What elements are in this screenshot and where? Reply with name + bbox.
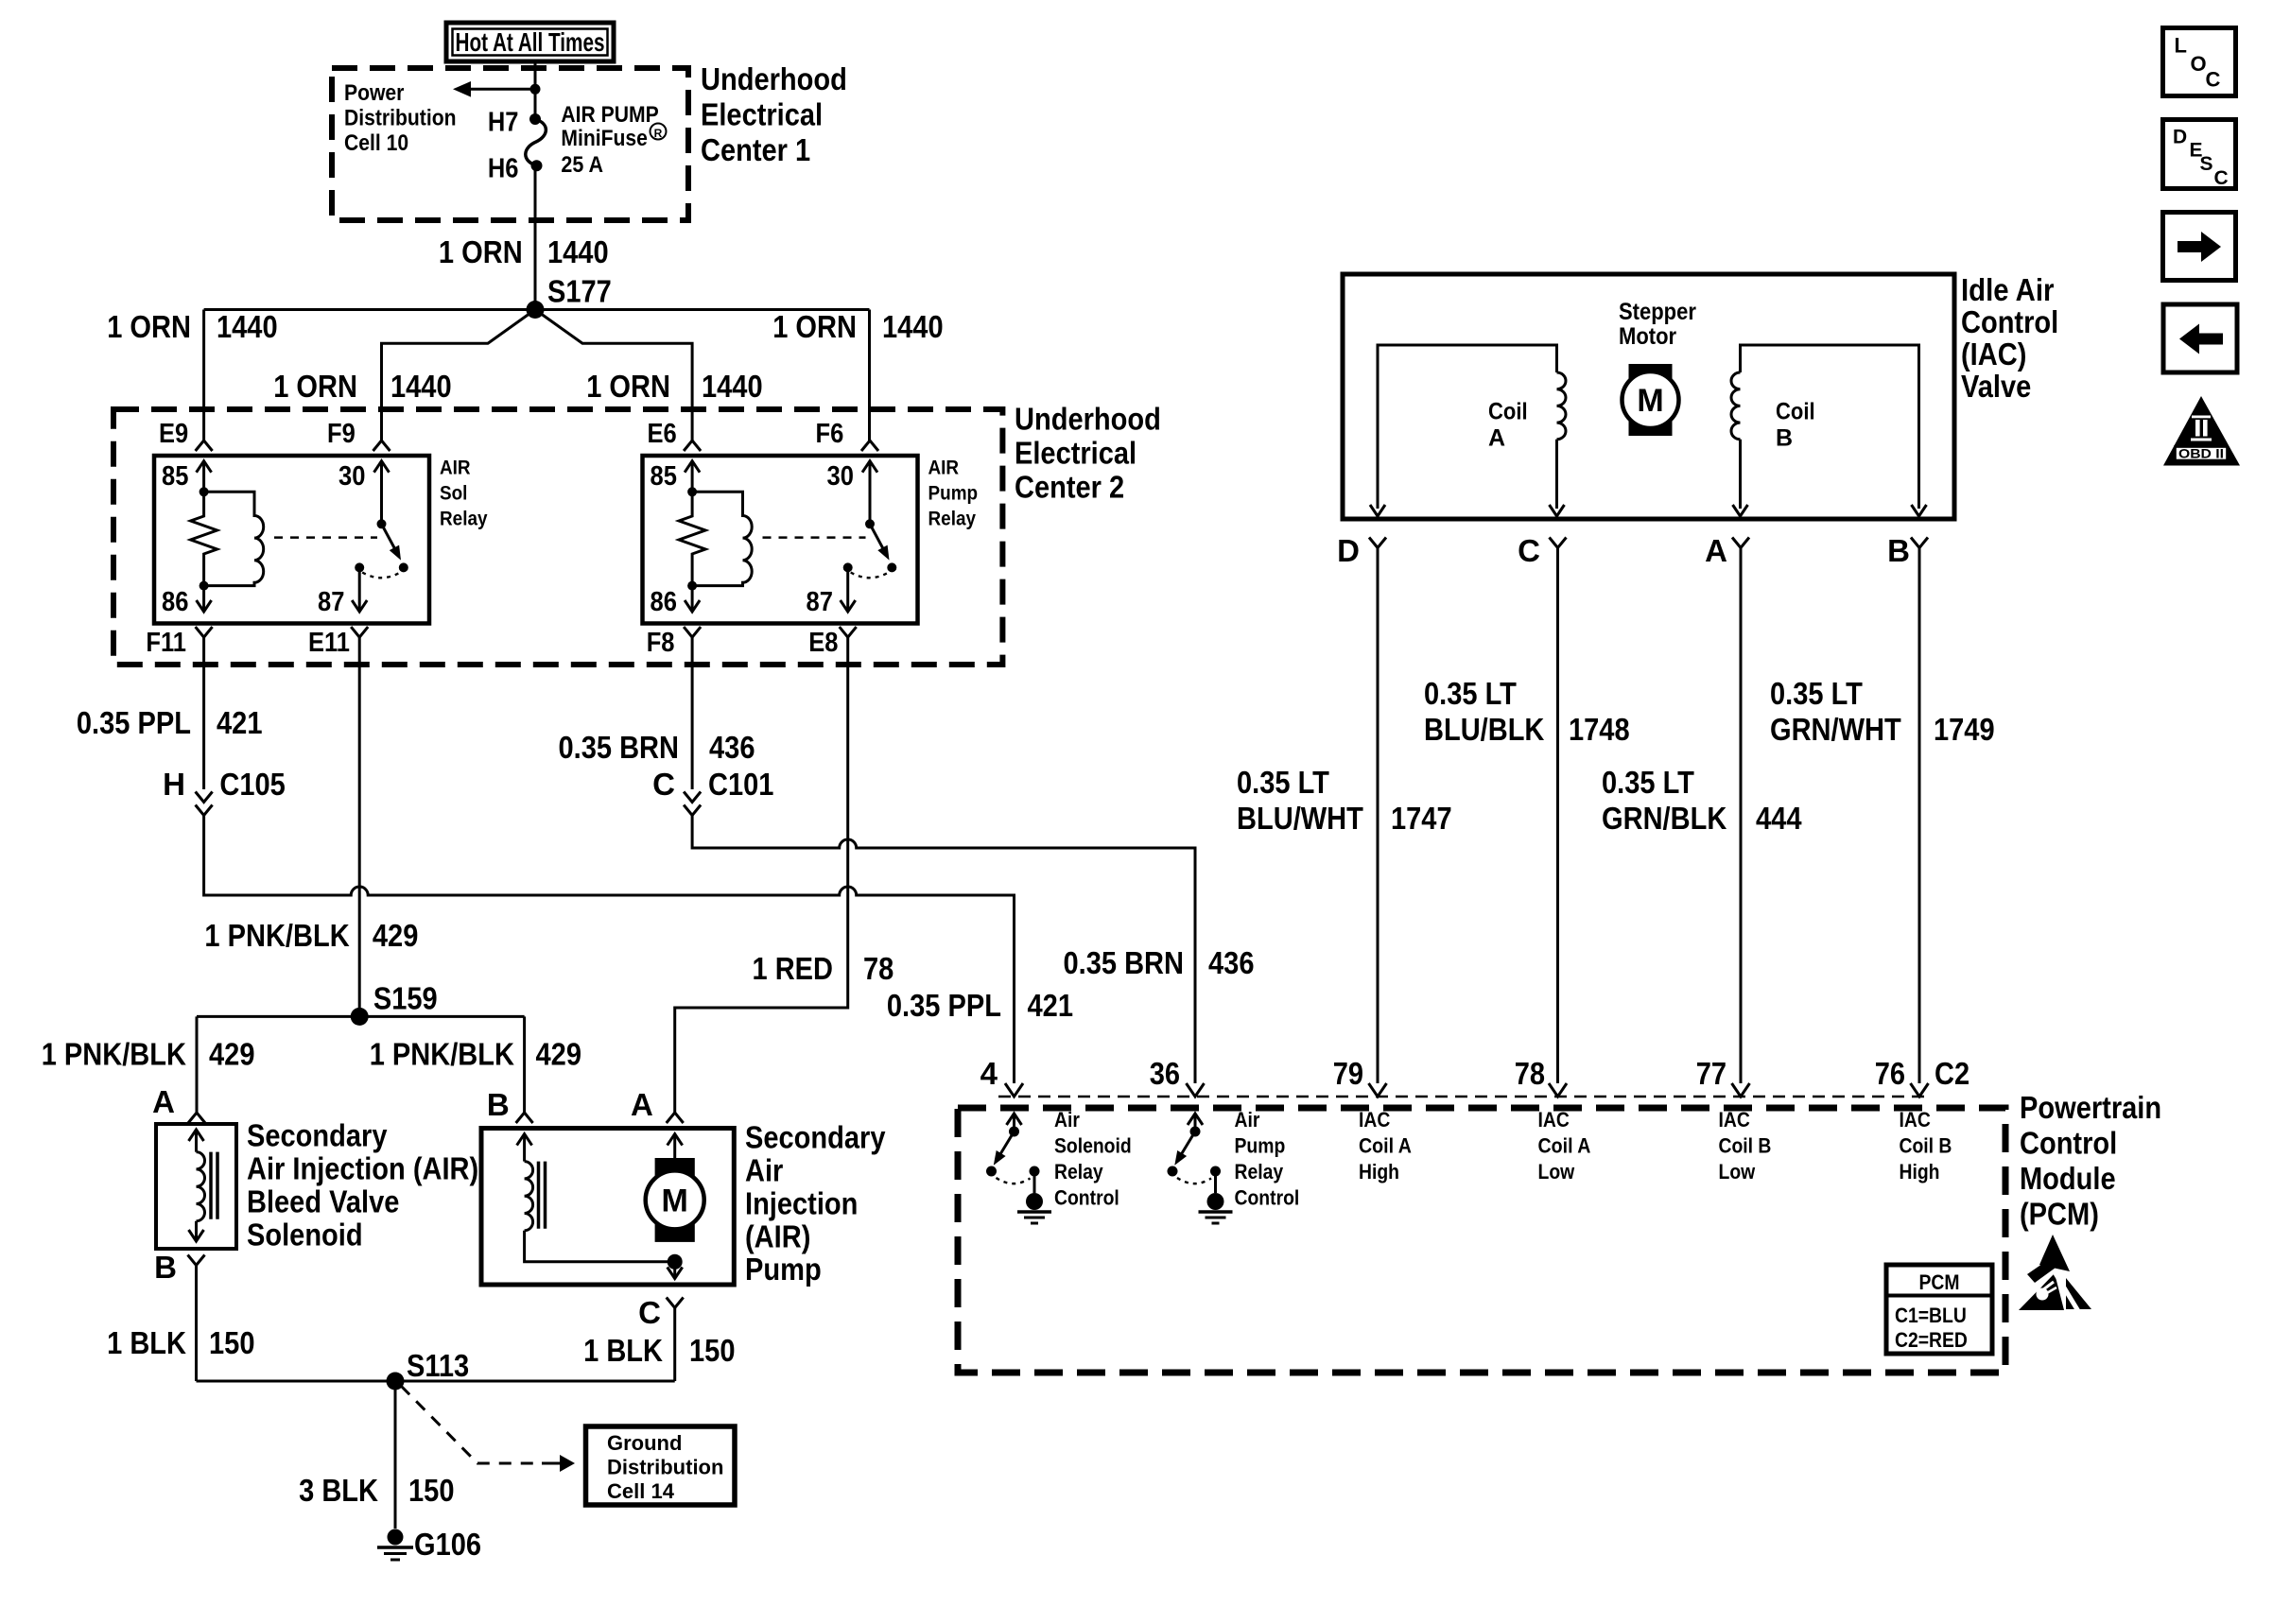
svg-text:1 PNK/BLK: 1 PNK/BLK xyxy=(204,918,349,953)
svg-text:Cell 14: Cell 14 xyxy=(607,1479,675,1503)
svg-text:0.35 LT: 0.35 LT xyxy=(1237,765,1329,800)
wire from Hot At All Times into UEC1 xyxy=(534,60,537,119)
relay switch pin 30 xyxy=(862,461,877,473)
svg-text:86: 86 xyxy=(651,587,677,617)
svg-text:GRN/WHT: GRN/WHT xyxy=(1770,712,1901,747)
svg-text:AIR: AIR xyxy=(440,457,471,479)
svg-text:C: C xyxy=(2206,68,2221,92)
svg-text:Ground: Ground xyxy=(607,1431,682,1455)
svg-text:421: 421 xyxy=(1028,988,1074,1023)
svg-text:Secondary: Secondary xyxy=(745,1120,886,1155)
svg-text:Coil: Coil xyxy=(1776,399,1815,425)
svg-text:Solenoid: Solenoid xyxy=(247,1217,363,1252)
svg-text:AIR: AIR xyxy=(928,457,960,479)
ground (internal) xyxy=(1207,1193,1224,1210)
dashed actuator link xyxy=(274,536,377,539)
svg-text:Power: Power xyxy=(344,80,404,106)
svg-text:Pump: Pump xyxy=(745,1252,822,1287)
svg-text:1 ORN: 1 ORN xyxy=(107,309,191,344)
svg-text:444: 444 xyxy=(1756,801,1802,836)
svg-text:1440: 1440 xyxy=(547,234,609,269)
svg-text:0.35 PPL: 0.35 PPL xyxy=(887,988,1001,1023)
svg-text:Coil A: Coil A xyxy=(1538,1134,1591,1158)
splice S113 xyxy=(197,1380,675,1383)
svg-text:A: A xyxy=(152,1084,175,1119)
svg-text:E11: E11 xyxy=(308,628,350,658)
svg-text:Control: Control xyxy=(1961,304,2058,339)
PCM connector row (dashed in-line connector C2) xyxy=(998,1096,1931,1098)
node pin C of AIR pump xyxy=(667,1298,684,1308)
svg-text:F9: F9 xyxy=(327,419,356,449)
svg-text:1 PNK/BLK: 1 PNK/BLK xyxy=(370,1037,514,1072)
svg-text:C: C xyxy=(652,767,675,802)
svg-text:Solenoid: Solenoid xyxy=(1054,1134,1132,1158)
svg-text:F8: F8 xyxy=(647,628,675,658)
svg-text:Air: Air xyxy=(745,1153,783,1188)
wire 1 RED 78 from E8 to AIR pump pin A xyxy=(675,637,848,1113)
svg-text:Distribution: Distribution xyxy=(607,1456,723,1479)
node pin C of IAC xyxy=(1550,538,1567,548)
motor M stepper motor symbol xyxy=(1629,364,1673,383)
svg-text:30: 30 xyxy=(827,461,854,492)
svg-text:30: 30 xyxy=(338,461,365,492)
node PCM pin 78 xyxy=(1549,1083,1567,1097)
svg-text:IAC: IAC xyxy=(1719,1108,1750,1132)
IAC valve box xyxy=(1343,274,1954,519)
svg-text:4: 4 xyxy=(980,1056,998,1091)
icon OBD II triangle xyxy=(2163,396,2240,466)
wire arrow to Power Distribution Cell 10 xyxy=(460,88,535,91)
wire 0.35 BRN 436 from C101 to PCM pin 36 xyxy=(692,816,1195,1084)
svg-text:1440: 1440 xyxy=(217,309,278,344)
svg-text:C105: C105 xyxy=(219,767,285,802)
svg-text:Air: Air xyxy=(1054,1108,1080,1132)
resistor (relay suppression) xyxy=(191,492,217,585)
svg-text:L: L xyxy=(2175,34,2187,58)
svg-text:D: D xyxy=(2173,127,2187,148)
svg-text:1440: 1440 xyxy=(390,369,452,404)
svg-text:78: 78 xyxy=(1515,1056,1545,1091)
wire 0.35 LT GRN/BLK 444 from IAC A to PCM 77 xyxy=(1740,548,1743,1084)
wire 0.35 PPL 421 from F11 to C105 xyxy=(202,637,205,789)
wire 0.35 PPL 421 from C105 to PCM pin 4 xyxy=(204,816,1015,1084)
svg-text:GRN/BLK: GRN/BLK xyxy=(1602,801,1726,836)
svg-text:1748: 1748 xyxy=(1569,712,1630,747)
node PCM connector legend box xyxy=(1886,1265,1992,1354)
svg-text:Motor: Motor xyxy=(1619,323,1676,350)
svg-text:S177: S177 xyxy=(547,274,612,309)
svg-text:36: 36 xyxy=(1150,1056,1180,1091)
svg-text:E9: E9 xyxy=(159,419,188,449)
motor M symbol xyxy=(655,1158,695,1176)
svg-text:1749: 1749 xyxy=(1934,712,1995,747)
svg-text:Underhood: Underhood xyxy=(701,61,847,96)
svg-text:PCM: PCM xyxy=(1919,1270,1960,1294)
svg-text:436: 436 xyxy=(709,730,755,765)
relay switch contact 87 xyxy=(355,562,364,572)
svg-text:Module: Module xyxy=(2020,1161,2116,1196)
svg-text:Pump: Pump xyxy=(1235,1134,1286,1158)
node terminal F6 xyxy=(861,441,878,451)
wire 1 ORN 1440 branch to F9 xyxy=(382,310,536,441)
wire 1 ORN 1440 from fuse to S177 xyxy=(534,165,537,309)
svg-text:Coil B: Coil B xyxy=(1719,1134,1772,1158)
svg-text:High: High xyxy=(1359,1160,1399,1183)
svg-text:C: C xyxy=(1518,533,1540,568)
ESD sensitivity symbol xyxy=(2039,1235,2070,1271)
relay switch contact 87 xyxy=(843,562,853,572)
icon LOC box xyxy=(2163,28,2236,96)
svg-text:1 ORN: 1 ORN xyxy=(772,309,857,344)
svg-text:0.35 BRN: 0.35 BRN xyxy=(559,730,680,765)
svg-text:87: 87 xyxy=(807,587,833,617)
svg-text:76: 76 xyxy=(1875,1056,1905,1091)
svg-text:C1=BLU: C1=BLU xyxy=(1895,1304,1967,1327)
svg-text:IAC: IAC xyxy=(1538,1108,1570,1132)
svg-text:H6: H6 xyxy=(488,154,519,184)
icon right arrow box xyxy=(2163,213,2236,281)
svg-text:Center 2: Center 2 xyxy=(1015,470,1124,505)
svg-text:429: 429 xyxy=(373,918,419,953)
relay coil pin 85 xyxy=(197,461,212,473)
svg-text:S159: S159 xyxy=(373,980,438,1015)
svg-text:Air Injection (AIR): Air Injection (AIR) xyxy=(247,1151,478,1186)
relay switch arm xyxy=(870,524,886,554)
wire 0.35 LT BLU/WHT 1747 from IAC D to PCM 79 xyxy=(1377,548,1379,1084)
svg-text:A: A xyxy=(631,1087,653,1122)
svg-text:H: H xyxy=(163,767,185,802)
svg-text:Distribution: Distribution xyxy=(344,106,457,131)
svg-text:F11: F11 xyxy=(146,628,186,658)
wire 1 BLK 150 from solenoid B to S113 xyxy=(195,1266,198,1382)
svg-text:H7: H7 xyxy=(488,107,519,137)
relay AIR Pump Relay box xyxy=(643,456,918,624)
svg-text:(PCM): (PCM) xyxy=(2020,1197,2099,1232)
relay switch arm xyxy=(382,524,398,554)
node pin D of IAC xyxy=(1369,538,1386,548)
svg-text:C: C xyxy=(2214,167,2229,189)
svg-text:Idle Air: Idle Air xyxy=(1961,272,2055,307)
svg-text:87: 87 xyxy=(318,587,344,617)
svg-text:Secondary: Secondary xyxy=(247,1118,388,1153)
svg-text:Control: Control xyxy=(1054,1186,1119,1210)
Underhood Electrical Center 2 dashed box xyxy=(113,409,1002,665)
dashed actuator link xyxy=(763,536,866,539)
svg-text:Low: Low xyxy=(1538,1160,1575,1183)
svg-text:Air: Air xyxy=(1235,1108,1260,1132)
svg-text:Electrical: Electrical xyxy=(1015,436,1136,471)
wire dashed reference to Ground Distribution Cell 14 xyxy=(401,1386,542,1463)
relay coil winding xyxy=(692,492,752,585)
svg-text:Relay: Relay xyxy=(1235,1160,1284,1183)
fuse AIR PUMP MiniFuse 25 A xyxy=(529,113,541,125)
node PCM pin 36 xyxy=(1187,1083,1205,1097)
svg-text:M: M xyxy=(1637,383,1663,419)
svg-text:E8: E8 xyxy=(808,628,838,658)
relay pin 86 xyxy=(691,586,694,612)
node pin B of AIR pump xyxy=(516,1113,533,1123)
node PCM pin 79 xyxy=(1369,1083,1387,1097)
wire 0.35 LT GRN/WHT 1749 from IAC B to PCM 76 xyxy=(1918,548,1921,1084)
wire 1 PNK/BLK 429 to bleed valve solenoid pin A xyxy=(196,1016,199,1113)
svg-text:Center 1: Center 1 xyxy=(701,132,810,167)
svg-text:1747: 1747 xyxy=(1391,801,1452,836)
svg-text:1 ORN: 1 ORN xyxy=(273,369,357,404)
node terminal F11 xyxy=(196,627,213,637)
svg-text:150: 150 xyxy=(689,1333,736,1368)
ground (internal) xyxy=(1026,1193,1043,1210)
svg-text:Pump: Pump xyxy=(928,482,979,505)
svg-text:High: High xyxy=(1900,1160,1940,1183)
svg-text:D: D xyxy=(1337,533,1360,568)
relay coil winding xyxy=(204,492,264,585)
svg-text:3 BLK: 3 BLK xyxy=(299,1473,378,1508)
svg-text:B: B xyxy=(154,1250,177,1285)
svg-text:Injection: Injection xyxy=(745,1185,858,1220)
svg-text:1 ORN: 1 ORN xyxy=(439,234,523,269)
svg-text:C: C xyxy=(638,1295,661,1330)
svg-text:86: 86 xyxy=(162,587,188,617)
svg-text:R: R xyxy=(654,127,663,140)
svg-text:IAC: IAC xyxy=(1900,1108,1931,1132)
svg-text:Coil: Coil xyxy=(1488,399,1528,425)
relay pin 86 xyxy=(202,586,205,612)
node terminal F9 xyxy=(373,441,390,451)
svg-text:O: O xyxy=(2191,52,2207,76)
node pin B of bleed valve solenoid xyxy=(188,1255,205,1266)
svg-text:85: 85 xyxy=(162,461,188,492)
svg-text:436: 436 xyxy=(1208,945,1255,980)
svg-text:Powertrain: Powertrain xyxy=(2020,1090,2161,1125)
wire 1 ORN 1440 branch to E6 xyxy=(535,310,692,441)
svg-text:0.35 PPL: 0.35 PPL xyxy=(77,705,191,740)
node terminal E8 xyxy=(840,627,857,637)
Powertrain Control Module dashed box xyxy=(958,1108,2005,1373)
svg-text:77: 77 xyxy=(1696,1056,1726,1091)
svg-text:0.35 LT: 0.35 LT xyxy=(1770,676,1863,711)
wire 0.35 LT BLU/BLK 1748 from IAC C to PCM 78 xyxy=(1556,548,1559,1084)
solenoid Secondary Air Injection (AIR) Bleed Valve Solenoid xyxy=(156,1124,236,1249)
svg-text:1440: 1440 xyxy=(882,309,944,344)
svg-text:B: B xyxy=(1776,425,1793,452)
wire 1 PNK/BLK 429 from E11 to S159 xyxy=(358,637,361,1016)
svg-text:C101: C101 xyxy=(708,767,773,802)
wire main horizontal from S177 xyxy=(204,308,870,311)
svg-text:79: 79 xyxy=(1333,1056,1363,1091)
wire 0.35 BRN 436 from F8 to C101 xyxy=(691,637,694,789)
svg-text:G106: G106 xyxy=(414,1527,481,1562)
svg-text:(AIR): (AIR) xyxy=(745,1218,810,1253)
svg-text:B: B xyxy=(487,1087,510,1122)
svg-text:Coil A: Coil A xyxy=(1359,1134,1412,1158)
wire 1 BLK 150 from pump C to S113 xyxy=(673,1308,676,1382)
wire 3 BLK 150 from S113 to G106 xyxy=(394,1381,397,1529)
resistor (relay suppression) xyxy=(679,492,705,585)
svg-text:F6: F6 xyxy=(816,419,844,449)
svg-text:Relay: Relay xyxy=(1054,1160,1103,1183)
relay switch pin 30 xyxy=(374,461,390,473)
svg-text:78: 78 xyxy=(863,951,894,986)
svg-text:MiniFuse: MiniFuse xyxy=(561,126,648,151)
svg-text:25 A: 25 A xyxy=(561,152,603,178)
node PCM pin 77 xyxy=(1732,1083,1750,1097)
svg-text:Electrical: Electrical xyxy=(701,97,823,132)
svg-text:Relay: Relay xyxy=(928,508,977,530)
svg-text:1 RED: 1 RED xyxy=(753,951,834,986)
relay AIR Sol Relay box xyxy=(154,456,429,624)
switch (PCM driver) xyxy=(1007,1114,1022,1125)
svg-text:150: 150 xyxy=(209,1325,255,1360)
icon DESC box xyxy=(2163,120,2236,189)
node PCM pin 4 xyxy=(1005,1083,1023,1097)
wire S159 horizontal xyxy=(197,1015,525,1018)
ground G106 xyxy=(388,1529,404,1546)
svg-text:85: 85 xyxy=(651,461,677,492)
svg-text:Valve: Valve xyxy=(1961,369,2031,404)
node PCM pin 76 xyxy=(1911,1083,1929,1097)
node terminal F8 xyxy=(684,627,701,637)
svg-text:IAC: IAC xyxy=(1359,1108,1390,1132)
svg-text:Control: Control xyxy=(1235,1186,1300,1210)
svg-text:0.35 LT: 0.35 LT xyxy=(1424,676,1517,711)
inductor Coil B xyxy=(1741,345,1919,509)
svg-text:A: A xyxy=(1488,425,1505,452)
node Ground Distribution Cell 14 (reference box) xyxy=(586,1426,736,1505)
relay coil pin 85 xyxy=(685,461,700,473)
svg-text:421: 421 xyxy=(217,705,263,740)
svg-text:Relay: Relay xyxy=(440,508,488,530)
svg-text:429: 429 xyxy=(209,1037,255,1072)
wire 1 ORN 1440 right outer to F6 xyxy=(868,310,871,441)
node terminal E9 xyxy=(196,441,213,451)
svg-text:(IAC): (IAC) xyxy=(1961,337,2026,371)
connector C105 pin H xyxy=(196,792,213,803)
svg-text:S113: S113 xyxy=(407,1348,469,1383)
svg-text:429: 429 xyxy=(536,1037,582,1072)
svg-text:C2=RED: C2=RED xyxy=(1895,1328,1968,1352)
svg-text:Control: Control xyxy=(2020,1126,2117,1161)
svg-text:E6: E6 xyxy=(648,419,677,449)
node pin A of bleed valve solenoid xyxy=(188,1113,205,1123)
svg-text:Hot At All Times: Hot At All Times xyxy=(456,27,605,57)
svg-text:1440: 1440 xyxy=(702,369,763,404)
svg-text:Stepper: Stepper xyxy=(1619,299,1696,325)
connector C101 pin C xyxy=(684,792,701,803)
wire 1 PNK/BLK 429 to AIR pump pin B xyxy=(523,1016,526,1113)
svg-text:Underhood: Underhood xyxy=(1015,402,1161,437)
svg-text:AIR PUMP: AIR PUMP xyxy=(561,102,658,128)
switch (PCM driver) xyxy=(1188,1114,1203,1125)
svg-text:1 PNK/BLK: 1 PNK/BLK xyxy=(42,1037,186,1072)
svg-text:A: A xyxy=(1705,533,1727,568)
svg-text:0.35 LT: 0.35 LT xyxy=(1602,765,1694,800)
svg-text:BLU/BLK: BLU/BLK xyxy=(1424,712,1545,747)
svg-text:1 BLK: 1 BLK xyxy=(583,1333,663,1368)
node pin B of IAC xyxy=(1911,538,1928,548)
svg-text:1 ORN: 1 ORN xyxy=(586,369,670,404)
svg-text:C2: C2 xyxy=(1935,1056,1969,1091)
svg-text:150: 150 xyxy=(408,1473,455,1508)
svg-text:BLU/WHT: BLU/WHT xyxy=(1237,801,1363,836)
wire 1 ORN 1440 left outer to E9 xyxy=(202,310,205,441)
node pin A of IAC xyxy=(1732,538,1749,548)
node pin A of AIR pump xyxy=(667,1113,684,1123)
node terminal E6 xyxy=(684,441,701,451)
svg-text:Cell 10: Cell 10 xyxy=(344,130,408,156)
motor Secondary Air Injection (AIR) Pump xyxy=(481,1129,734,1286)
node terminal E11 xyxy=(351,627,368,637)
svg-text:Sol: Sol xyxy=(440,482,467,505)
svg-text:B: B xyxy=(1887,533,1910,568)
svg-text:OBD II: OBD II xyxy=(2178,446,2224,461)
svg-text:0.35 BRN: 0.35 BRN xyxy=(1064,945,1185,980)
svg-text:S: S xyxy=(2200,153,2213,175)
node Hot At All Times (power feed box) xyxy=(446,23,614,61)
svg-text:Bleed Valve: Bleed Valve xyxy=(247,1184,399,1219)
svg-text:Coil B: Coil B xyxy=(1900,1134,1952,1158)
svg-text:Low: Low xyxy=(1719,1160,1756,1183)
svg-text:M: M xyxy=(662,1183,688,1219)
Underhood Electrical Center 1 dashed box xyxy=(332,68,688,220)
icon left arrow box xyxy=(2163,304,2237,372)
inductor Coil A xyxy=(1378,345,1557,509)
svg-text:1 BLK: 1 BLK xyxy=(107,1325,186,1360)
